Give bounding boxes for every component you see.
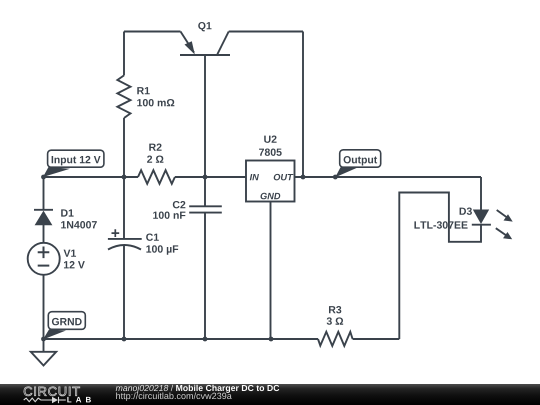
wire input node to D1 (43, 177, 45, 209)
net flag Input 12 V (43, 150, 104, 177)
resistor R1 (117, 32, 130, 178)
flag text Output (344, 156, 378, 165)
pin OUT (274, 174, 294, 181)
wire collector drop (302, 32, 304, 178)
voltage source V1 (28, 243, 60, 275)
label R3 (329, 306, 341, 313)
label D3 (460, 207, 472, 214)
pin IN (250, 174, 259, 180)
node C2 gnd (203, 337, 208, 342)
diode D1 (34, 210, 53, 243)
flag text GRND (52, 318, 82, 325)
value 7805 (259, 148, 282, 155)
footer title line (116, 385, 169, 393)
footer logo resistor squiggle (24, 397, 66, 403)
value 100 nF (153, 211, 185, 218)
capacitor C2 (189, 177, 222, 339)
label C2 (173, 201, 186, 208)
wire V1 to ground rail (43, 275, 45, 339)
value 3 Ω (327, 317, 344, 324)
resistor R2 (138, 170, 175, 184)
label D1 (61, 209, 73, 216)
wire U2 GND pin down (270, 202, 272, 340)
LED D3 (472, 210, 491, 225)
node collector-out (301, 175, 306, 180)
wire top rail right (229, 31, 303, 33)
label R1 (137, 87, 149, 94)
value 12 V (64, 261, 85, 268)
wire input net (44, 176, 139, 178)
wire output to D3 anode (480, 177, 482, 210)
pin GND (261, 193, 281, 200)
capacitor C1 (108, 177, 142, 339)
net flag GRND (43, 312, 85, 340)
node U2 GND (269, 337, 274, 342)
label V1 (64, 250, 76, 257)
node output flag (333, 175, 338, 180)
value 1N4007 (61, 221, 97, 228)
node C1 gnd (122, 337, 127, 342)
value 100 µF (146, 245, 178, 255)
wire R3 to riser (353, 338, 400, 340)
wire U2 OUT to D3 (295, 176, 482, 178)
node input (41, 175, 46, 180)
label R2 (149, 143, 161, 150)
LED light arrow 1 (497, 210, 513, 222)
node ground-V1 (41, 337, 46, 342)
wire D3 return loop (399, 193, 481, 340)
footer url line (116, 392, 232, 400)
LED light arrow 2 (496, 228, 512, 239)
footer logo LAB (67, 397, 91, 403)
wire top rail left (124, 31, 181, 33)
label U2 (264, 135, 276, 142)
value 2 Ω (147, 155, 163, 162)
node Q1 base-C2 (203, 175, 208, 180)
footer logo CIRCUIT (24, 387, 80, 396)
label C1 (146, 233, 159, 240)
value 100 mΩ (137, 99, 174, 106)
regulator U2 7805 (246, 161, 295, 202)
net flag Output (335, 150, 380, 178)
ground (31, 339, 56, 366)
flag text Input 12 V (52, 156, 101, 165)
wire Q1 base drop (204, 55, 206, 177)
value LTL-307EE (414, 221, 467, 228)
resistor R3 (318, 332, 353, 346)
transistor Q1 (180, 32, 230, 56)
node R1-R2-C1 (122, 175, 127, 180)
wire ground rail (44, 338, 319, 340)
footer logo diode triangle (52, 397, 58, 403)
wire R2 to U2 IN (175, 176, 246, 178)
footer bar (0, 384, 540, 405)
label Q1 (198, 22, 211, 31)
